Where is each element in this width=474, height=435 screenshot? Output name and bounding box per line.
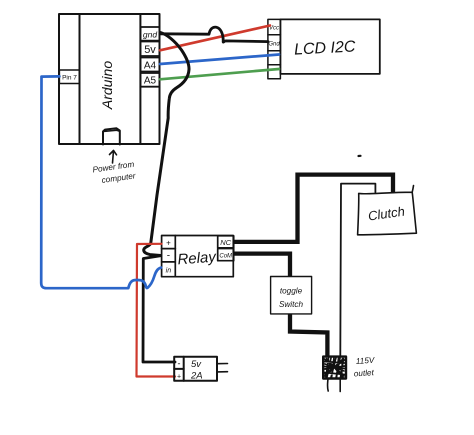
relay pin COM box [218,249,234,261]
LCD I2C module body [280,19,379,74]
wire thin clutch to outlet [340,184,375,357]
svg-text:NC: NC [220,238,231,247]
svg-text:2A: 2A [190,371,203,382]
toggle switch box [271,277,312,314]
svg-text:5v: 5v [144,44,156,56]
svg-text:LCD I2C: LCD I2C [294,38,357,58]
wire red 5v to Vcc [160,26,270,51]
toggle switch label [279,287,304,310]
svg-text:115V: 115V [356,356,377,366]
relay pin NC box [218,236,234,248]
Arduino U1 body [59,14,160,144]
wire red relay plus to supply plus [137,244,176,377]
Power from computer arrow [110,151,117,164]
pin A4 [140,58,159,72]
Clutch box [358,186,417,235]
USB connector [103,128,120,144]
wire thick NC to clutch [234,175,393,242]
wire black gnd to LCD Gnd with hop [160,27,268,42]
svg-text:toggle: toggle [280,287,303,296]
Power from computer label [92,160,136,185]
svg-text:outlet: outlet [354,368,375,378]
5v 2A supply body [174,357,217,381]
pin 5v [140,42,159,57]
svg-text:Gnd: Gnd [268,42,280,48]
svg-text:+: + [177,374,181,381]
svg-text:-: - [178,359,181,369]
Relay K1 body [162,236,234,277]
115V outlet label [354,356,377,379]
svg-text:CoM: CoM [219,254,232,260]
supply value 5v 2A [190,359,203,382]
wire blue A4 to LCD SDA [160,55,279,65]
svg-text:in: in [166,268,172,275]
pin gnd [140,27,159,41]
svg-text:Pin 7: Pin 7 [62,75,77,82]
svg-text:Switch: Switch [279,300,304,309]
LCD pin header column [268,19,281,78]
svg-text:-: - [167,251,170,262]
wire black relay minus to supply minus [143,256,175,362]
wire green A5 to LCD SCL [160,69,279,79]
svg-text:Relay: Relay [177,249,218,269]
outlet prongs [326,379,329,391]
wire thick toggle switch to outlet [290,314,327,357]
svg-text:+: + [166,239,171,248]
svg-text:gnd: gnd [143,30,157,40]
wire thick COM to toggle switch [234,254,290,277]
pin A5 [140,73,159,87]
wire black gnd down to relay minus [144,33,189,256]
115V outlet scribble box [323,357,346,379]
svg-text:A5: A5 [144,76,157,87]
supply prongs [217,364,228,372]
wire blue Pin7 to relay in [41,76,161,288]
svg-text:5v: 5v [191,359,202,370]
pin Pin7 [59,70,79,84]
stray dot [359,155,361,157]
svg-text:A4: A4 [144,61,157,72]
svg-text:Arduino: Arduino [99,61,115,110]
